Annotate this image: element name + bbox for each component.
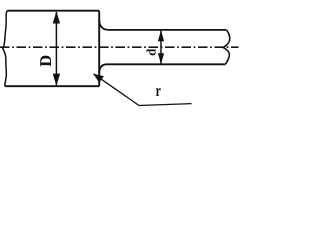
large shaft top edge <box>7 10 99 12</box>
svg-text:r: r <box>156 81 162 100</box>
arrowhead d bottom <box>158 53 164 64</box>
arrowhead D bottom <box>53 74 60 86</box>
dimension line d <box>160 31 162 64</box>
centerline (dash-dot axis) <box>0 46 239 48</box>
top fillet <box>99 21 109 30</box>
bottom fillet <box>99 64 106 73</box>
leader arrowhead <box>93 74 104 83</box>
leader line for fillet radius <box>94 74 192 106</box>
right break line <box>223 30 230 64</box>
dimension line D <box>55 12 57 85</box>
svg-text:d: d <box>143 48 158 56</box>
arrowhead d top <box>158 30 164 41</box>
left break line <box>3 11 7 87</box>
large shaft bottom edge <box>5 85 99 87</box>
small shaft bottom edge <box>106 63 226 65</box>
svg-text:D: D <box>36 55 55 67</box>
small shaft top edge <box>109 29 227 31</box>
shoulder step face <box>98 11 100 87</box>
arrowhead D top <box>53 11 60 23</box>
